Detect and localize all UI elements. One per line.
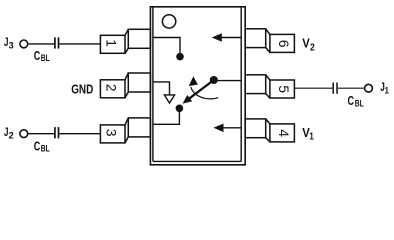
switch arm [189,80,214,99]
IC package inner edge left [152,7,154,162]
svg-text:2: 2 [104,84,120,92]
wire J3 to capacitor [29,43,55,45]
throw contact node (pin 1) [176,53,184,61]
pin 3 lead [100,118,150,143]
svg-text:1: 1 [104,39,120,47]
capacitor C_BL (J3) plate 1 [54,37,56,48]
wire capacitor to J1 [338,87,364,89]
pin 1 lead [100,29,150,53]
IC package inner edge right [240,7,242,162]
svg-text:6: 6 [276,40,292,48]
svg-text:C: C [348,93,355,108]
capacitor C_BL (J1) plate 2 [336,83,338,94]
IC package inner edge bottom [153,160,241,162]
pin 4 lead [245,119,294,142]
ground open arrowhead [164,95,174,103]
svg-text:BL: BL [355,98,364,109]
wire pin 1 to throw contact [153,38,180,53]
svg-text:3: 3 [9,41,14,52]
connector J1 terminal [365,84,373,92]
connector J3 terminal [20,40,28,48]
capacitor C_BL (J2) plate 2 [58,127,60,138]
pin 5 lead [245,75,294,98]
arrow into pin 4 [214,124,224,133]
switch travel arrowhead [189,76,198,86]
wire J2 to capacitor [29,133,55,135]
capacitor C_BL (J3) plate 2 [58,37,60,48]
capacitor C_BL (J2) plate 1 [54,127,56,138]
common node (pin 5) [210,76,218,84]
svg-text:3: 3 [104,129,120,137]
svg-text:5: 5 [276,85,292,93]
svg-text:1: 1 [309,132,314,143]
svg-text:1: 1 [385,86,390,97]
throw contact node (pin 3) [176,105,184,113]
pin 2 lead [100,73,150,98]
svg-text:2: 2 [9,131,14,142]
svg-text:C: C [34,48,41,63]
capacitor C_BL (J1) plate 1 [332,83,334,94]
IC package U1 body [150,7,245,165]
wire pin 3 to throw contact [153,108,180,124]
svg-text:V: V [302,36,310,51]
connector J2 terminal [20,130,28,138]
wire capacitor to pin 3 [59,133,100,135]
wire capacitor to pin 1 [59,43,100,45]
wire pin 5 to common node [216,80,241,82]
wire pin 6 internal [221,37,241,39]
switch travel arc [191,87,218,99]
switch arm arrowhead [183,95,193,104]
wire pin 5 to capacitor [294,87,332,89]
arrow into pin 6 [212,33,222,42]
svg-text:BL: BL [41,144,50,155]
svg-text:C: C [34,139,41,154]
wire pin 2 to ground arrow [153,82,170,95]
svg-text:4: 4 [276,129,292,137]
svg-text:GND: GND [71,82,93,97]
wire pin 4 internal [223,127,242,129]
svg-text:2: 2 [310,43,315,54]
pin-1 indicator circle [162,15,175,28]
svg-text:BL: BL [41,53,50,64]
pin 6 lead [245,29,294,53]
